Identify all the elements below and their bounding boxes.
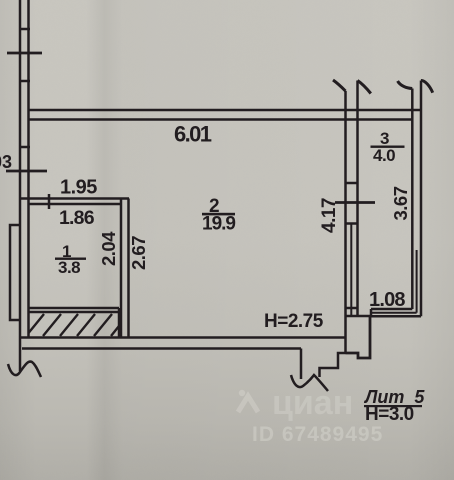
left wall rung y29 xyxy=(19,28,30,31)
hatch diagonals xyxy=(29,314,120,336)
watermark cian logo xyxy=(238,390,258,412)
left wall rung y147 xyxy=(19,146,30,149)
hatch box right edge xyxy=(118,308,121,337)
room2 fraction bar xyxy=(202,213,235,216)
right wall outer line xyxy=(420,81,423,317)
bottom wall bottom line xyxy=(22,347,301,350)
svg-text:1.86: 1.86 xyxy=(59,207,95,229)
svg-text:1.08: 1.08 xyxy=(369,289,405,311)
dimension tick y202 xyxy=(335,201,375,204)
Lit 5 underline xyxy=(364,405,422,407)
svg-text:циан: циан xyxy=(272,384,353,422)
svg-text:2.67: 2.67 xyxy=(128,236,149,270)
svg-text:2.04: 2.04 xyxy=(98,231,119,266)
left outer wall outer line xyxy=(19,0,22,371)
room1/room2 divider wall right line xyxy=(127,199,130,338)
room2/3 wall left line xyxy=(344,91,347,353)
svg-text:H=2.75: H=2.75 xyxy=(264,311,324,332)
room2/3 wall rung y183 xyxy=(346,182,358,185)
dimension texts xyxy=(0,122,425,426)
room2/3 wall rung y223.5 xyxy=(346,222,358,225)
bottom wall break vertical xyxy=(300,349,303,380)
room1/room2 divider wall left line xyxy=(120,199,123,338)
svg-text:3.8: 3.8 xyxy=(58,258,80,277)
svg-text:03: 03 xyxy=(0,152,12,172)
svg-text:3.67: 3.67 xyxy=(390,186,411,220)
room1 top wall lower line xyxy=(29,203,122,206)
dimension tick y53 xyxy=(7,52,42,55)
right wall flare right xyxy=(421,80,433,92)
left wall break curve xyxy=(8,362,41,377)
bottom wall break curve xyxy=(291,375,328,391)
room2/3 wall right line xyxy=(356,81,359,317)
room1 top wall tick xyxy=(48,194,51,209)
svg-text:ID 67489495: ID 67489495 xyxy=(252,423,383,446)
room1 fraction bar xyxy=(55,258,86,260)
svg-text:4.0: 4.0 xyxy=(373,146,395,165)
hatch box border top double xyxy=(29,307,120,310)
room2/3 wall glazing line xyxy=(350,224,352,317)
right wall inner line xyxy=(411,89,414,310)
steps lower flight xyxy=(320,353,346,377)
bottom wall top line xyxy=(20,336,346,339)
dimension tick y171 xyxy=(6,170,47,173)
room2/3 wall flare right xyxy=(358,81,371,94)
steps to stairwell xyxy=(346,316,371,358)
left wall rung y81 xyxy=(19,80,30,83)
room2/3 wall rung y308 xyxy=(346,307,358,310)
room3 window left jamb xyxy=(370,309,373,316)
room3 window bottom outer xyxy=(371,315,421,318)
room3 window bottom middle xyxy=(371,312,417,314)
svg-text:H=3.0: H=3.0 xyxy=(365,404,414,425)
doorway sill room2/3 xyxy=(346,315,371,318)
svg-text:6.01: 6.01 xyxy=(174,122,212,147)
top wall upper line xyxy=(29,109,422,112)
room3 fraction bar xyxy=(371,146,405,148)
left outer wall inner line xyxy=(27,0,30,337)
svg-text:19.9: 19.9 xyxy=(202,214,235,235)
top wall lower line xyxy=(29,118,413,121)
right wall flare left xyxy=(398,81,413,89)
room3 window bottom inner xyxy=(371,308,412,311)
room1 top wall upper line xyxy=(20,197,129,200)
svg-text:1.95: 1.95 xyxy=(60,177,97,199)
svg-text:4.17: 4.17 xyxy=(319,198,340,233)
right wall middle line xyxy=(416,250,418,313)
room2/3 wall flare left xyxy=(333,80,346,91)
wall pilaster bump xyxy=(10,225,20,320)
